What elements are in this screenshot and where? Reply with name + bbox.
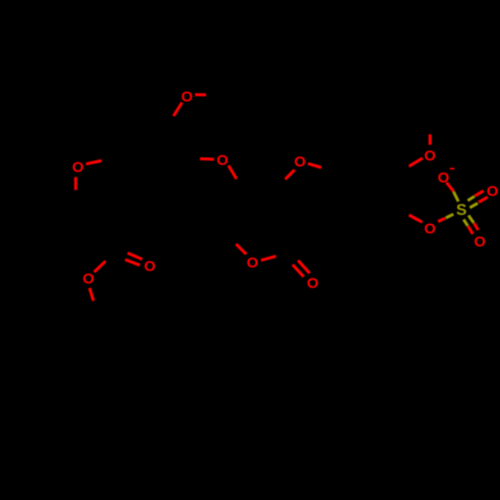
wire double bond C=O11 left line xyxy=(293,265,304,277)
svg-text:S: S xyxy=(456,202,467,219)
wire bond O6-S sulfur half xyxy=(454,192,459,202)
wire bond O10-carbonyl right half-bond xyxy=(261,256,276,260)
wire bond O4-down-left half-bond xyxy=(285,170,294,179)
wire bond O10-ring up-left half-bond xyxy=(236,244,246,254)
svg-text:O: O xyxy=(474,234,486,251)
svg-text:O: O xyxy=(72,159,84,176)
svg-text:O: O xyxy=(83,271,95,288)
wire bond O3-down half-bond xyxy=(74,177,77,190)
svg-text:O: O xyxy=(294,154,306,171)
wire double bond C=O13 lower line xyxy=(125,260,140,266)
wire double bond C=O13 upper line xyxy=(128,253,143,259)
wire bond O5-ring down-left half-bond xyxy=(409,158,423,166)
svg-text:O: O xyxy=(217,152,229,169)
wire bond O1-ring down-left half-bond xyxy=(174,103,183,117)
wire double bond S=O7 line1 sulfur half xyxy=(468,196,475,200)
wire double bond S=O9 line1 sulfur half xyxy=(464,219,468,225)
wire bond O12-carbonyl up-right half-bond xyxy=(94,261,105,272)
wire bond O4-right half-bond xyxy=(308,164,321,168)
wire bond O8-S sulfur half xyxy=(446,214,454,218)
svg-text:O: O xyxy=(181,89,193,106)
wire bond O5-CH3 methoxy up half-bond xyxy=(429,134,432,145)
wire double bond S=O9 line1 red half xyxy=(468,226,473,234)
wire double bond S=O7 line2 red half xyxy=(479,197,488,202)
wire bond O1-CH3 methoxy right half-bond xyxy=(195,93,206,96)
wire bond O6-S red half xyxy=(447,183,454,192)
wire bond O8-ring left half-bond xyxy=(409,215,422,222)
wire bond O8-S red half xyxy=(438,218,445,221)
wire bond O2-left half-bond xyxy=(200,157,214,160)
wire bond O3-ring right half-bond xyxy=(86,161,102,164)
svg-text:O: O xyxy=(424,220,436,237)
svg-text:O: O xyxy=(307,275,319,292)
wire double bond S=O7 line1 red half xyxy=(475,191,484,196)
wire bond O12-chain down half-bond xyxy=(90,288,94,301)
svg-text:O: O xyxy=(144,258,156,275)
wire double bond S=O9 line2 sulfur half xyxy=(469,215,474,222)
svg-text:O: O xyxy=(438,170,450,187)
wire double bond S=O7 line2 sulfur half xyxy=(470,203,478,208)
charge minus sign on O6 xyxy=(450,168,455,170)
wire double bond S=O9 line2 red half xyxy=(474,223,478,230)
svg-text:O: O xyxy=(247,255,259,272)
svg-text:O: O xyxy=(424,147,436,164)
svg-text:O: O xyxy=(487,183,499,200)
wire double bond C=O11 right line xyxy=(298,260,310,273)
wire bond O2-down-right half-bond xyxy=(229,166,237,180)
